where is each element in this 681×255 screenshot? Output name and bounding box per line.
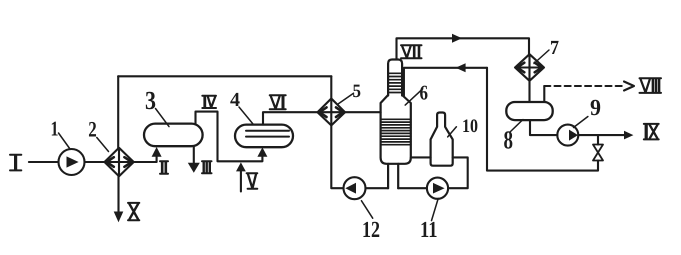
pump 12	[344, 177, 366, 199]
wire vessel 4 riser and VI line to exchanger 5	[263, 112, 318, 124]
wire exchanger 5 down to pump 12	[331, 125, 343, 188]
open arrow VIII	[624, 82, 634, 91]
wire vessel 8 vent stub	[543, 86, 545, 102]
heat exchanger 7	[515, 54, 544, 81]
wire column pipe to pump 11	[398, 187, 427, 189]
wire recycle branch with valve	[487, 68, 598, 171]
label 8	[504, 120, 524, 155]
arrow III outlet	[188, 146, 200, 173]
label 5	[338, 81, 361, 104]
node I label	[10, 155, 21, 171]
wire exchanger 2 to vessel 3 inlet	[134, 157, 157, 163]
label 6	[405, 81, 428, 106]
pump 1	[59, 149, 85, 175]
wire I feed to pump 1	[29, 161, 59, 163]
node VII label	[401, 45, 422, 58]
svg-text:1: 1	[51, 116, 59, 140]
label 9	[574, 95, 602, 128]
arrow on VII line	[452, 34, 462, 43]
dashed vent line VIII	[544, 85, 622, 87]
wire exchanger 5 to column 6	[345, 111, 381, 113]
node VIII label	[640, 78, 662, 93]
node IX label	[644, 124, 659, 139]
arrow IX	[624, 131, 633, 140]
svg-text:3: 3	[145, 86, 156, 115]
pump 9	[557, 125, 578, 146]
arrow II into vessel 3	[152, 147, 162, 157]
node V label	[247, 173, 258, 189]
svg-text:2: 2	[88, 117, 97, 142]
wire column top to exchanger 7 (VII line)	[397, 38, 530, 59]
arrow X	[114, 212, 124, 223]
wire exchanger 7 to vessel 8	[528, 81, 530, 102]
arrow on return line	[456, 63, 466, 72]
vessel 3	[144, 124, 203, 147]
svg-text:5: 5	[353, 81, 362, 102]
wire return line to column top	[404, 68, 487, 96]
node IV label	[202, 96, 216, 108]
svg-text:10: 10	[462, 116, 478, 137]
svg-text:6: 6	[420, 81, 429, 105]
label 10	[448, 116, 478, 137]
label 4	[230, 89, 253, 124]
arrow into vessel 4 bottom	[257, 147, 267, 156]
label 3	[145, 86, 169, 127]
wire exchanger 2 down to X outlet	[117, 176, 119, 212]
wire down to exchanger 5 top	[330, 76, 332, 98]
node III label	[202, 161, 212, 173]
node X label	[128, 203, 139, 220]
wire top loop	[118, 75, 331, 77]
svg-text:7: 7	[550, 37, 559, 59]
wire exchanger 2 top riser	[117, 76, 119, 148]
svg-text:11: 11	[420, 217, 438, 242]
svg-text:9: 9	[590, 95, 601, 120]
wire column to reboiler 10	[411, 156, 431, 158]
label 11	[420, 199, 438, 242]
wire pump 9 discharge IX	[578, 134, 624, 136]
label 1	[51, 116, 71, 149]
wire vessel 8 to pump 9	[530, 120, 557, 135]
svg-text:12: 12	[362, 217, 380, 242]
label 7	[534, 37, 559, 64]
svg-text:4: 4	[230, 89, 240, 111]
valve	[593, 145, 603, 161]
wire vessel 3 step to vessel 4 (IV line)	[196, 112, 263, 162]
wire reboiler 10 to pump 11 loop	[448, 157, 468, 188]
reboiler 10 (bottle)	[431, 113, 453, 166]
node VI label	[270, 95, 286, 109]
wire pump 12 to column bottom pipe	[366, 187, 389, 189]
heat exchanger 2	[105, 148, 134, 176]
pump 11	[427, 178, 448, 199]
vessel 4	[235, 125, 293, 148]
vessel 8	[506, 102, 552, 120]
label 12	[361, 201, 380, 242]
label 2	[88, 117, 108, 152]
column 6	[381, 60, 411, 189]
heat exchanger 5	[318, 99, 346, 126]
arrow V feed	[236, 162, 246, 191]
wire pump 1 to exchanger 2	[85, 161, 105, 163]
node II label	[160, 161, 168, 174]
